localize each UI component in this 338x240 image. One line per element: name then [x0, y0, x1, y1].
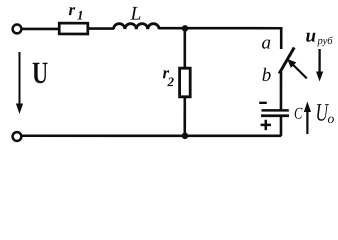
switch blade (open, from b toward upper right): [279, 48, 294, 74]
switch actuation arrow: [287, 59, 307, 78]
terminal (top-left input): [13, 25, 22, 34]
svg-text:o: o: [327, 111, 334, 126]
svg-text:b: b: [262, 65, 272, 86]
wire top: terminal to R1: [22, 28, 59, 31]
svg-text:L: L: [130, 4, 142, 25]
voltage arrow U (left, downward): [16, 52, 23, 114]
resistor r1: [59, 23, 88, 34]
terminal (bottom-left input): [13, 132, 22, 141]
svg-text:r: r: [69, 0, 76, 19]
svg-text:1: 1: [77, 8, 84, 23]
inductor L: [114, 24, 160, 30]
wire: capacitor bottom plate down to bottom wire: [280, 116, 283, 136]
wire top: L to right corner: [159, 27, 281, 30]
svg-text:2: 2: [166, 74, 174, 89]
wire: r2 down to bottom junction: [183, 97, 186, 136]
minus polarity sign: [259, 102, 267, 104]
svg-text:U: U: [32, 55, 48, 89]
node: top junction dot: [182, 25, 189, 32]
resistor r2: [180, 68, 191, 97]
plus polarity sign: [261, 120, 271, 130]
wire bottom: terminal to capacitor stub: [22, 134, 282, 137]
svg-text:C: C: [294, 105, 302, 123]
node: bottom junction dot: [182, 133, 189, 140]
capacitor C top plate: [261, 109, 288, 112]
svg-text:u: u: [306, 26, 317, 47]
arrow for u_rub (downward): [316, 49, 323, 82]
capacitor C bottom plate: [261, 114, 289, 117]
wire: junction down to r2: [184, 28, 187, 68]
wire: contact b down to capacitor top plate: [280, 72, 283, 111]
wire: R1 to L: [89, 27, 114, 30]
voltage arrow U0 (upward, at capacitor): [304, 102, 311, 135]
svg-text:руб: руб: [317, 36, 334, 47]
wire: top-right corner down to contact a: [280, 27, 283, 49]
svg-text:a: a: [262, 33, 272, 54]
